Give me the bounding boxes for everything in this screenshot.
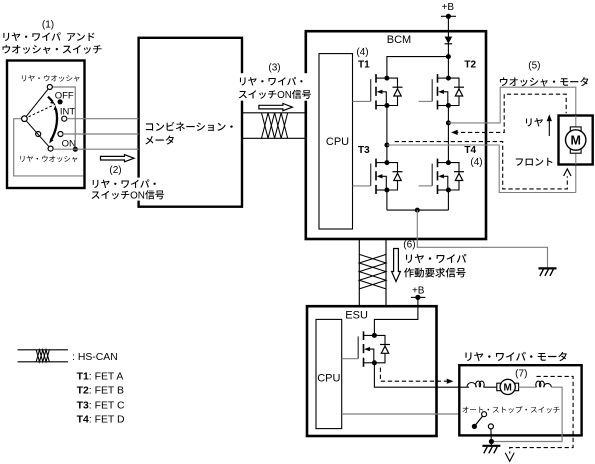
rear motor M letter — [504, 383, 512, 394]
wire motor to L2 — [519, 386, 537, 388]
node T2/T4 to washer rear — [446, 120, 451, 125]
label front (washer) — [514, 155, 554, 169]
svg-text:M: M — [570, 134, 580, 148]
common node dot — [73, 147, 78, 152]
label ON — [62, 138, 76, 149]
label rear washer (top) — [20, 73, 80, 84]
contact circle washer bottom — [48, 146, 53, 151]
label CPU (ESU) — [317, 372, 340, 384]
wire pivot return (left-bottom of switch) — [14, 119, 84, 176]
node T3/T4 junction — [415, 208, 420, 213]
wire ON to meter — [63, 133, 139, 135]
label (2) line2 — [91, 187, 165, 201]
contact circle mid (on lever line) — [36, 132, 41, 137]
washer motor brush top — [570, 127, 581, 132]
svg-text:OFF: OFF — [55, 90, 74, 101]
washer motor vertical wire — [575, 116, 577, 165]
svg-text:リヤ・ワイパ・: リヤ・ワイパ・ — [238, 74, 306, 88]
arrow (6) rear wiper request signal — [392, 249, 401, 282]
wire T2-T4 column — [447, 106, 449, 163]
svg-text:リヤ・ウオッシャ: リヤ・ウオッシャ — [19, 154, 79, 165]
legend HS-CAN text — [72, 352, 118, 363]
rear wiper and washer switch box — [7, 61, 85, 189]
mask behind (2) label — [89, 178, 167, 201]
svg-text:オート・ストップ・スイッチ: オート・ストップ・スイッチ — [462, 404, 561, 415]
svg-text:作動要求信号: 作動要求信号 — [404, 264, 466, 279]
svg-text:(6): (6) — [403, 240, 415, 251]
node +B to T1 branch — [387, 54, 451, 78]
wire lever to bottom washer contact — [24, 119, 50, 149]
label auto-stop switch — [462, 404, 561, 415]
label +B (ESU) — [412, 285, 425, 296]
svg-text:リヤ: リヤ — [524, 115, 544, 129]
label +B (BCM) — [442, 2, 455, 13]
label (2) — [109, 165, 121, 176]
svg-text:T3: T3 — [358, 145, 370, 156]
label (5) — [528, 61, 540, 72]
svg-text:(4): (4) — [470, 157, 482, 168]
wire +B into ESU — [374, 297, 418, 335]
lever arrow to OFF (short) — [48, 97, 55, 104]
wire T3/T4 node to ground — [417, 210, 547, 268]
legend T2 — [77, 386, 124, 397]
auto-stop lever — [474, 416, 482, 426]
rear motor brush left — [497, 383, 501, 391]
label (6) — [403, 240, 415, 251]
svg-text:スイッチON信号: スイッチON信号 — [238, 87, 312, 101]
label T1 — [358, 60, 370, 71]
legend HS-CAN symbol — [18, 350, 68, 362]
svg-text:INT: INT — [60, 106, 76, 117]
node T1/T3 to washer front — [384, 143, 389, 148]
svg-text:CPU: CPU — [317, 372, 340, 384]
HS-CAN coil (vertical) — [359, 254, 386, 289]
svg-text:T2: FET B: T2: FET B — [77, 386, 124, 397]
HS-CAN coil (horizontal) — [262, 113, 288, 139]
svg-text:(4): (4) — [356, 47, 368, 58]
label (3) — [268, 62, 280, 73]
label T2 — [464, 60, 476, 71]
transistor T4 (FET D) — [419, 159, 465, 194]
label (6) line2 — [404, 264, 466, 279]
ESU box — [307, 306, 437, 436]
wire ESU FET source to motor — [374, 363, 469, 387]
washer motor brush bottom — [570, 148, 581, 153]
washer motor M letter — [570, 134, 580, 148]
svg-text:(5): (5) — [528, 61, 540, 72]
legend T3 — [77, 400, 125, 411]
wire T1-T3 column — [386, 106, 388, 163]
rear wiper motor box — [459, 365, 581, 435]
+B supply tap (BCM) — [441, 14, 456, 19]
svg-text:+B: +B — [412, 285, 425, 296]
switch title line2 — [1, 41, 102, 56]
svg-text:ウオッシャ・モータ: ウオッシャ・モータ — [499, 74, 590, 89]
svg-text:T4: T4 — [464, 145, 476, 156]
svg-text:T2: T2 — [464, 60, 476, 71]
label rear washer (bottom) — [19, 154, 79, 165]
washer motor box — [559, 116, 593, 165]
dashed lever position to OFF — [24, 104, 55, 118]
pivot circle — [22, 116, 28, 122]
arrow (2) rear wiper switch ON signal — [101, 155, 135, 162]
ground (rear wiper motor) — [482, 446, 500, 454]
dashed flow front-washer from BCM — [395, 142, 571, 189]
svg-text:(2): (2) — [109, 165, 121, 176]
svg-text:+B: +B — [442, 2, 455, 13]
svg-text:T3: FET C: T3: FET C — [77, 400, 125, 411]
label ESU — [345, 310, 368, 322]
label CPU (BCM) — [326, 136, 349, 148]
label (6) line1 — [404, 251, 467, 266]
wire +B down (BCM) — [447, 16, 449, 78]
label T3 — [358, 145, 370, 156]
HS-CAN bus top line — [242, 112, 306, 114]
label (3) line2 — [238, 87, 312, 101]
dashed flow inside rear motor — [505, 376, 573, 461]
label T4 — [464, 145, 476, 156]
svg-text:CPU: CPU — [326, 136, 349, 148]
transistor T1 (FET A) — [353, 74, 403, 109]
label (4) lower — [470, 157, 482, 168]
auto-stop contact lower — [488, 424, 493, 429]
svg-text:BCM: BCM — [387, 34, 411, 46]
svg-text:リヤ・ワイパ・モータ: リヤ・ワイパ・モータ — [463, 349, 568, 364]
+B supply tap (ESU) — [411, 295, 426, 300]
wire T4 source down — [447, 190, 449, 210]
label washer motor — [499, 74, 590, 89]
auto-stop pivot dot — [472, 424, 477, 429]
lever arc with arrows — [49, 105, 57, 143]
contact circle INT — [62, 116, 67, 121]
CPU box (BCM) — [319, 54, 353, 229]
OFF position dot — [58, 99, 63, 104]
HS-CAN bus bottom line — [242, 137, 306, 139]
wire INT to meter — [67, 118, 139, 120]
label rear wiper motor — [463, 349, 568, 364]
legend T1 — [77, 371, 124, 382]
wire T3-T4 join — [387, 209, 449, 211]
wire motor return to ground node — [491, 387, 562, 441]
label combination meter line1 — [144, 119, 236, 134]
combination meter box — [139, 38, 242, 207]
svg-text:: HS-CAN: : HS-CAN — [72, 352, 118, 363]
inductor L1 (left) — [467, 381, 484, 387]
node ground junction — [489, 439, 494, 444]
svg-text:(7): (7) — [515, 369, 527, 380]
svg-text:M: M — [504, 383, 512, 394]
label (1) — [42, 20, 54, 31]
label (3) line1 — [238, 74, 306, 88]
wire washer common to meter — [53, 148, 139, 150]
svg-text:(3): (3) — [268, 62, 280, 73]
label (7) — [515, 369, 527, 380]
svg-text:リヤ・ウオッシャ: リヤ・ウオッシャ — [20, 73, 80, 84]
svg-text:ウオッシャ・スイッチ: ウオッシャ・スイッチ — [1, 41, 102, 56]
label OFF — [55, 90, 74, 101]
svg-text:ESU: ESU — [345, 310, 368, 322]
label combination meter line2 — [144, 132, 175, 147]
wire switch to ground — [490, 429, 493, 446]
wire L1 to motor — [484, 386, 498, 388]
rear motor M circle — [500, 379, 515, 394]
svg-text:T1: T1 — [358, 60, 370, 71]
inductor L2 (right) — [536, 381, 552, 387]
svg-text:スイッチON信号: スイッチON信号 — [91, 187, 165, 201]
label rear (washer) — [524, 115, 544, 129]
label (2) line1 — [91, 176, 160, 190]
transistor Q1 (ESU FET) — [342, 331, 390, 366]
label BCM — [387, 34, 411, 46]
contact circle ON row — [58, 132, 63, 137]
transistor T2 (FET B) — [419, 74, 465, 109]
ground (BCM output) — [539, 268, 557, 276]
wire washer top contact to common node — [50, 87, 76, 149]
rear motor brush right — [515, 383, 519, 391]
transistor T3 (FET C) — [353, 159, 403, 194]
CPU box (ESU) — [316, 319, 342, 428]
wire T3 source down — [386, 190, 388, 210]
dashed flow rear-washer into BCM — [451, 94, 566, 135]
HS-CAN bus left line (vertical) — [358, 239, 360, 306]
mask behind (3) label — [236, 73, 316, 101]
washer motor M circle — [566, 130, 586, 150]
HS-CAN bus right line (vertical) — [385, 239, 387, 306]
svg-text:メータ: メータ — [144, 132, 175, 147]
wire lever to top washer contact — [24, 87, 49, 119]
auto-stop contact upper — [482, 412, 487, 417]
switch title line1 — [1, 29, 95, 44]
diode D1 (BCM +B) — [445, 37, 453, 44]
svg-text:フロント: フロント — [514, 155, 554, 169]
wire washer front drive (solid) — [387, 145, 576, 193]
wire washer rear drive (solid) — [448, 87, 575, 192]
legend T4 — [77, 415, 125, 426]
svg-text:T4: FET D: T4: FET D — [77, 415, 125, 426]
arrow rear direction — [547, 115, 552, 137]
wire into motor — [459, 386, 469, 388]
label (4) upper — [356, 47, 368, 58]
svg-text:T1: FET A: T1: FET A — [77, 371, 124, 382]
BCM box — [306, 31, 486, 239]
contact circle washer top — [47, 85, 52, 90]
wire CPU to auto-stop switch — [342, 413, 482, 415]
label INT — [60, 106, 76, 117]
arrow (3) rear wiper switch ON signal — [259, 104, 293, 111]
dashed flow ESU to motor — [380, 368, 453, 384]
